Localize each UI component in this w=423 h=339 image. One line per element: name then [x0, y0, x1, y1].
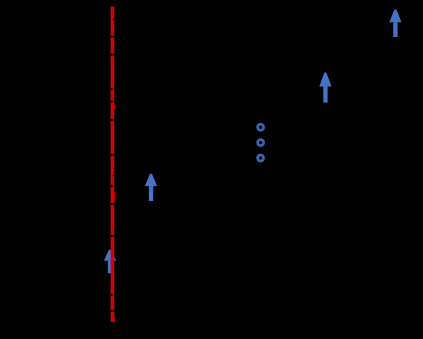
dash notch y295 (left half)	[111, 294, 113, 296]
dash notch y101.5 (left half)	[111, 101, 113, 102]
ellipsis ring 3	[258, 155, 264, 161]
dash notch y36.5	[111, 36, 115, 38]
dash bulge y104-109	[114, 104, 115, 109]
ellipsis ring 2	[258, 140, 264, 146]
arrow A1 (blue up arrow, partly behind red line)	[104, 250, 116, 274]
dash notch y175.5 (right half)	[113, 175, 115, 177]
dash notch y89 (left half)	[111, 88, 113, 89]
dash notch y186 (left half)	[111, 185, 113, 187]
ellipsis ring 1	[258, 124, 264, 130]
arrow A3 (blue up arrow)	[319, 73, 331, 103]
dash notch y98.5 (right sliver)	[114, 97, 115, 99]
dash notch y236	[111, 235, 115, 237]
dash notch y54.5	[111, 54, 115, 56]
arrow A4 (blue up arrow)	[389, 10, 401, 38]
dash notch y120	[111, 119, 115, 121]
dash notch y311	[111, 310, 115, 312]
dash notch y19.5 (right half)	[113, 19, 115, 20]
arrow A2 (blue up arrow)	[145, 174, 157, 201]
dash notch y204	[111, 203, 115, 205]
red dashed vertical line	[111, 7, 115, 323]
dash bulge y317-322	[114, 317, 115, 322]
dash notch y155	[111, 154, 115, 156]
dash bulge y192-203	[114, 192, 115, 203]
